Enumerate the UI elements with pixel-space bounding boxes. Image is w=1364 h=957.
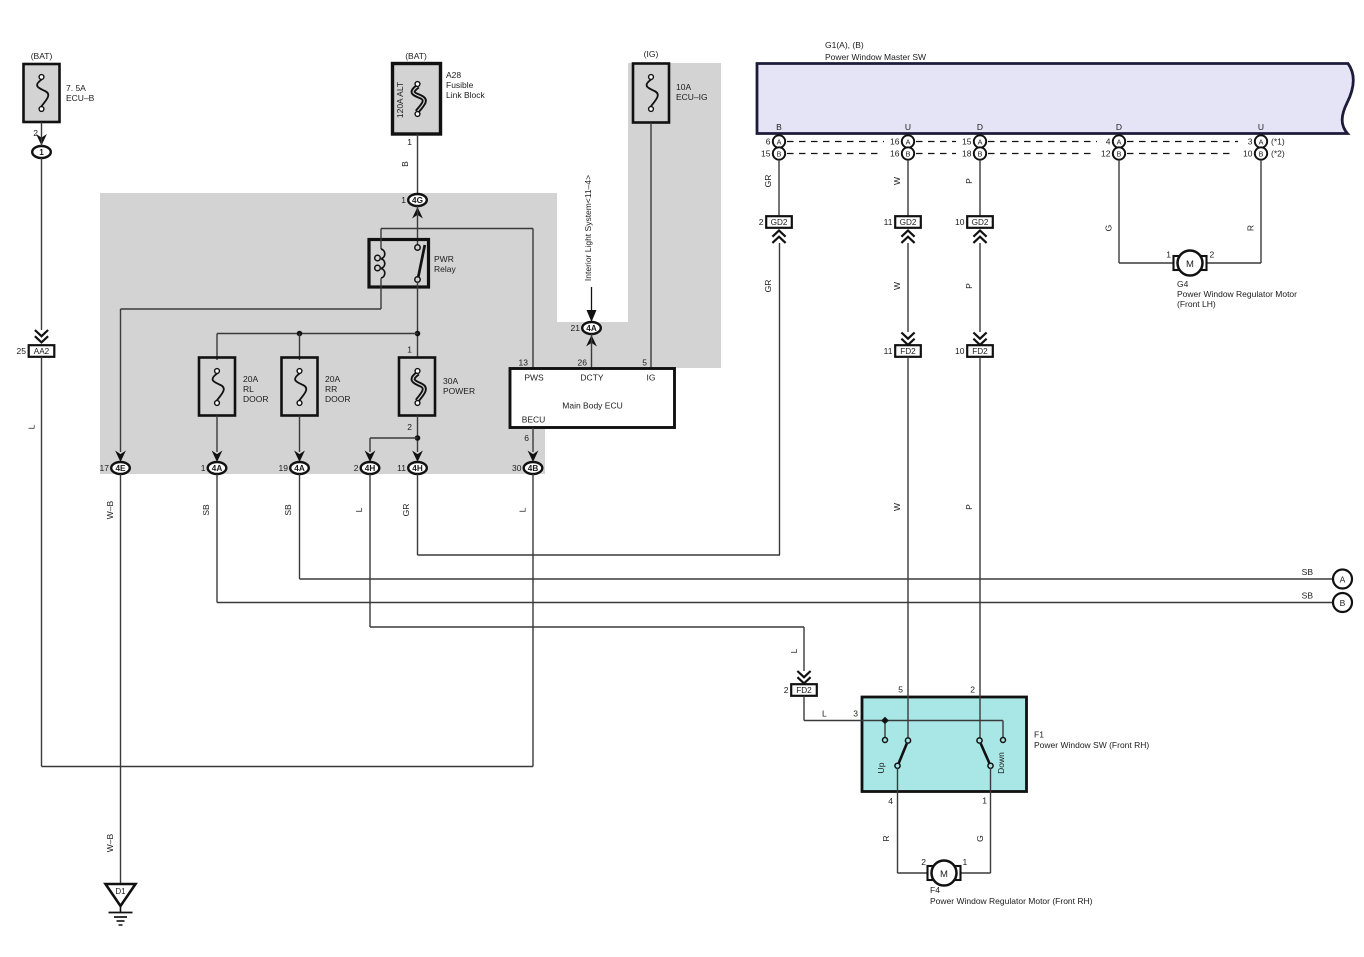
svg-text:(BAT): (BAT): [31, 51, 53, 61]
svg-text:4H: 4H: [412, 464, 423, 473]
svg-text:10A: 10A: [676, 82, 691, 92]
wire branch to 4H-2: [370, 438, 418, 452]
contact stub in F1: [883, 724, 888, 743]
svg-text:(Front LH): (Front LH): [1177, 299, 1216, 309]
wire 4B down to bottom run, label L: [518, 474, 534, 767]
arrow into 4E: [115, 451, 126, 463]
wire master SW pin U to GD2, label W: [892, 160, 908, 216]
pin 5 label: [642, 358, 647, 368]
wire 4H-11 to GD2 column, label GR: [401, 474, 780, 555]
fuse 20A RR DOOR: [282, 358, 351, 416]
pin 3 connector A (*1): [1248, 135, 1285, 147]
fuse 10A ECU-IG: [633, 49, 708, 123]
fusible link 120A ALT (A28): [393, 51, 486, 134]
fuse 30A POWER: [399, 345, 475, 433]
svg-text:B: B: [400, 161, 410, 167]
svg-text:L: L: [518, 507, 528, 512]
svg-text:20A: 20A: [243, 374, 258, 384]
pin 18 connector B (master SW, D column): [962, 147, 986, 159]
svg-text:11: 11: [884, 217, 893, 227]
svg-text:4: 4: [888, 796, 893, 806]
svg-text:L: L: [822, 709, 827, 719]
dashed pin tie lines row B: [787, 153, 1235, 155]
svg-text:W: W: [892, 282, 902, 290]
wire AA2 down to bottom run: [41, 357, 43, 767]
wire master SW pin D to GD2, label P: [964, 160, 980, 216]
svg-text:F4: F4: [930, 885, 940, 895]
switch blade Down: [977, 738, 1006, 774]
svg-text:120A ALT: 120A ALT: [395, 82, 405, 118]
svg-text:GR: GR: [763, 175, 773, 188]
svg-text:P: P: [964, 178, 974, 184]
contact circle right in F1: [1001, 738, 1006, 743]
pin 2 label of F1: [970, 685, 975, 695]
svg-text:U: U: [1258, 122, 1264, 132]
pin 15 connector B (master SW, B column): [761, 147, 785, 159]
wire RR DOOR fuse to 4A-19: [299, 416, 301, 453]
ECU block Main Body ECU: [510, 369, 675, 428]
arrow up into 4G: [412, 207, 423, 219]
wire 4G to PWR relay switch: [417, 206, 419, 245]
pin 1 label of F1: [982, 796, 987, 806]
svg-text:1: 1: [401, 195, 406, 205]
arrow into 4A-1: [212, 451, 223, 463]
svg-text:4H: 4H: [365, 464, 376, 473]
svg-text:G: G: [1104, 225, 1114, 232]
svg-text:B: B: [978, 149, 983, 158]
wire FD2-2 into F1 pin 3, label L: [804, 696, 885, 721]
wire relay coil feed horizontal to PWS: [381, 229, 533, 369]
switch blade Up: [876, 738, 911, 774]
svg-text:DOOR: DOOR: [325, 394, 351, 404]
wire F1 pin 1 to motor F4, label G: [961, 768, 991, 873]
svg-text:(*2): (*2): [1271, 149, 1285, 159]
pin 12 connector B (master SW, D2 column): [1101, 147, 1125, 159]
wire bottom horizontal run to 4B column: [42, 766, 534, 768]
wire 4A-1 to joint B, label SB: [201, 474, 1334, 603]
svg-text:G1(A), (B): G1(A), (B): [825, 40, 864, 50]
power bus horizontal wire: [217, 333, 418, 335]
junction connector GD2 (pin 10): [955, 216, 993, 243]
svg-text:13: 13: [519, 358, 529, 368]
svg-text:4E: 4E: [115, 464, 126, 473]
wire GD2 to FD2, label P: [964, 243, 980, 332]
svg-text:4A: 4A: [212, 464, 223, 473]
svg-text:SB: SB: [283, 504, 293, 516]
svg-text:30: 30: [512, 463, 522, 473]
pin 5 label of F1: [898, 685, 903, 695]
wire master SW pin U2 to motor G4, label R: [1204, 160, 1261, 263]
svg-text:20A: 20A: [325, 374, 340, 384]
svg-text:1: 1: [407, 345, 412, 355]
svg-text:Main Body ECU: Main Body ECU: [562, 401, 622, 411]
relay PWR Relay: [369, 229, 456, 310]
svg-text:P: P: [964, 504, 974, 510]
wire ECU-IG fuse to ECU pin 5: [650, 123, 652, 369]
wire bus to RR DOOR fuse: [299, 334, 301, 361]
wire master SW pin B to GD2, label GR: [763, 160, 779, 216]
svg-text:11: 11: [884, 346, 893, 356]
svg-text:6: 6: [524, 433, 529, 443]
svg-text:17: 17: [100, 463, 110, 473]
svg-text:L: L: [27, 424, 37, 429]
switch F1 Power Window SW (Front RH): [862, 697, 1149, 792]
svg-text:10: 10: [1243, 149, 1253, 159]
pin 6 label: [524, 433, 529, 443]
svg-text:A: A: [978, 137, 983, 146]
svg-text:U: U: [905, 122, 911, 132]
svg-text:2: 2: [1210, 250, 1215, 260]
svg-text:A: A: [906, 137, 911, 146]
svg-text:1: 1: [1166, 250, 1171, 260]
pin 2 of fuse ECU-B: [33, 128, 38, 138]
svg-text:Up: Up: [876, 762, 886, 773]
svg-text:B: B: [1259, 149, 1264, 158]
motor G4 Power Window Regulator Motor Front LH: [1166, 250, 1297, 310]
connector oval 4A (pin 21): [571, 322, 601, 334]
svg-text:1: 1: [982, 796, 987, 806]
svg-text:B: B: [1117, 149, 1122, 158]
svg-text:3: 3: [853, 709, 858, 719]
connector oval 4G: [401, 194, 427, 206]
wire FD2 to power window SW pin 2, label P: [964, 357, 980, 738]
svg-text:11: 11: [397, 463, 406, 473]
svg-text:21: 21: [571, 323, 581, 333]
wire relay switch to power bus: [417, 282, 419, 358]
svg-text:18: 18: [962, 149, 972, 159]
junction dot below 30A POWER: [415, 435, 421, 441]
svg-text:AA2: AA2: [34, 347, 50, 356]
junction connector FD2 (pin 10): [955, 333, 993, 357]
arrow into 4H-2: [365, 451, 376, 463]
wire FD2 to power window SW pin 5, label W: [892, 357, 908, 738]
svg-text:Power Window Master SW: Power Window Master SW: [825, 52, 926, 62]
svg-text:1: 1: [39, 148, 44, 157]
junction diamond in F1: [881, 717, 889, 725]
arrow into 4A-19: [294, 451, 305, 463]
svg-text:2: 2: [921, 857, 926, 867]
svg-text:GR: GR: [763, 280, 773, 293]
svg-text:Down: Down: [996, 752, 1006, 774]
svg-text:SB: SB: [1302, 567, 1314, 577]
svg-text:Power Window SW (Front RH): Power Window SW (Front RH): [1034, 740, 1149, 750]
svg-text:10: 10: [955, 217, 965, 227]
svg-text:L: L: [354, 507, 364, 512]
connector oval 4A (pin 1): [201, 462, 227, 474]
svg-text:5: 5: [898, 685, 903, 695]
svg-text:B: B: [906, 149, 911, 158]
svg-text:W–B: W–B: [105, 500, 115, 519]
pin 4 label of F1: [888, 796, 893, 806]
svg-text:15: 15: [761, 149, 771, 159]
svg-text:5: 5: [642, 358, 647, 368]
wire ECU pin 6 to 4B: [532, 428, 534, 453]
svg-text:ECU–B: ECU–B: [66, 93, 95, 103]
svg-text:2: 2: [759, 217, 764, 227]
junction connector GD2 (pin 11): [884, 216, 921, 243]
svg-text:DOOR: DOOR: [243, 394, 269, 404]
fuse 20A RL DOOR: [199, 358, 269, 416]
svg-text:(*1): (*1): [1271, 137, 1285, 147]
svg-text:W: W: [892, 503, 902, 511]
svg-text:4G: 4G: [412, 196, 423, 205]
svg-text:4: 4: [1106, 137, 1111, 147]
svg-text:Fusible: Fusible: [446, 80, 474, 90]
svg-text:2: 2: [407, 422, 412, 432]
svg-text:M: M: [1186, 259, 1194, 270]
pin 15 connector A (master SW, D column): [962, 135, 986, 147]
wire 4H-2 to FD2, label L: [354, 474, 804, 671]
svg-text:4B: 4B: [528, 464, 539, 473]
svg-text:6: 6: [766, 137, 771, 147]
motor F4 Power Window Regulator Motor Front RH: [921, 857, 1092, 906]
junction dot at relay output: [415, 331, 421, 337]
pin 10 connector B (*2): [1243, 147, 1285, 159]
svg-text:1: 1: [407, 137, 412, 147]
connector oval 1: [32, 146, 51, 158]
svg-text:PWS: PWS: [524, 373, 544, 383]
svg-text:7. 5A: 7. 5A: [66, 83, 86, 93]
svg-text:Power Window Regulator Motor (: Power Window Regulator Motor (Front RH): [930, 896, 1093, 906]
fuse 7.5A ECU-B: [24, 51, 95, 122]
ground D1: [106, 884, 136, 925]
svg-text:Interior Light System<11–4>: Interior Light System<11–4>: [583, 175, 593, 281]
svg-text:Link Block: Link Block: [446, 90, 485, 100]
svg-text:D1: D1: [115, 887, 126, 896]
svg-text:GD2: GD2: [900, 218, 917, 227]
wire 4A-19 to joint A, label SB: [283, 474, 1334, 579]
svg-text:FD2: FD2: [796, 686, 812, 695]
svg-text:10: 10: [955, 346, 965, 356]
svg-text:IG: IG: [647, 373, 656, 383]
svg-text:B: B: [1340, 598, 1346, 608]
connector oval 4H (pin 2): [354, 462, 380, 474]
svg-text:RL: RL: [243, 384, 254, 394]
svg-text:1: 1: [963, 857, 968, 867]
svg-text:ECU–IG: ECU–IG: [676, 92, 708, 102]
junction dot above RR DOOR fuse: [297, 331, 303, 337]
svg-text:A28: A28: [446, 70, 461, 80]
arrow into 4B: [528, 451, 539, 463]
svg-text:16: 16: [890, 149, 900, 159]
wire 30A POWER fuse down: [417, 416, 419, 453]
wire master SW pin D2 to motor G4, label G: [1104, 160, 1177, 263]
svg-text:F1: F1: [1034, 730, 1044, 740]
svg-text:G: G: [975, 835, 985, 842]
arrow into 4H-11: [412, 451, 423, 463]
svg-text:GD2: GD2: [972, 218, 989, 227]
pin 6 connector A (master SW, B column): [766, 135, 785, 147]
pin 1 of fusible link: [407, 137, 412, 147]
svg-text:3: 3: [1248, 137, 1253, 147]
svg-text:L: L: [789, 648, 799, 653]
pin 16 connector A (master SW, U column): [890, 135, 914, 147]
pin 16 connector B (master SW, U column): [890, 147, 914, 159]
svg-text:R: R: [881, 835, 891, 841]
svg-text:P: P: [964, 283, 974, 289]
svg-text:SB: SB: [201, 504, 211, 516]
wire 4A to ECU pin 26: [591, 334, 593, 369]
svg-text:B: B: [777, 149, 782, 158]
junction connector FD2 (pin 2): [784, 671, 817, 696]
svg-text:12: 12: [1101, 149, 1111, 159]
svg-text:30A: 30A: [443, 376, 458, 386]
svg-text:19: 19: [279, 463, 289, 473]
wire relay coil to 4E column: [121, 309, 382, 452]
svg-text:2: 2: [354, 463, 359, 473]
svg-text:A: A: [1340, 575, 1346, 585]
svg-text:D: D: [977, 122, 983, 132]
svg-text:(BAT): (BAT): [405, 51, 427, 61]
arrow into connector 1: [36, 134, 47, 146]
connector oval 4A (pin 19): [279, 462, 309, 474]
svg-text:GR: GR: [401, 504, 411, 517]
arrow up into 4A: [586, 335, 597, 347]
svg-text:DCTY: DCTY: [580, 373, 603, 383]
connector oval 4H (pin 11): [397, 462, 427, 474]
svg-text:FD2: FD2: [972, 347, 988, 356]
Interior Light System reference arrow: [583, 175, 597, 322]
connector oval 4E (pin 17): [100, 462, 130, 474]
wire inside F1 from pin 3 junction: [885, 721, 1003, 738]
svg-text:R: R: [1246, 225, 1256, 231]
gray harness shading region: [100, 63, 721, 474]
pin 26 label: [578, 358, 588, 368]
pin 4 connector A (master SW, D2 column): [1106, 135, 1125, 147]
wire GD2 down to 4H-11 run, label GR: [763, 243, 780, 555]
wire GD2 to FD2, label W: [892, 243, 908, 332]
svg-text:GD2: GD2: [771, 218, 788, 227]
component G1 Power Window Master SW (block): [757, 40, 1353, 134]
svg-text:POWER: POWER: [443, 386, 475, 396]
svg-text:FD2: FD2: [900, 347, 916, 356]
svg-text:25: 25: [17, 346, 27, 356]
svg-text:A: A: [777, 137, 782, 146]
wire fusible link to 4G, label B: [400, 134, 418, 194]
dashed pin tie lines row A: [787, 141, 1238, 143]
svg-text:(IG): (IG): [644, 49, 659, 59]
svg-text:4A: 4A: [586, 324, 597, 333]
wire F1 pin 4 to motor F4, label R: [881, 768, 928, 873]
svg-text:15: 15: [962, 137, 972, 147]
junction connector GD2 (pin 2): [759, 216, 792, 243]
pin 13 label: [519, 358, 529, 368]
svg-text:Power Window Regulator Motor: Power Window Regulator Motor: [1177, 289, 1297, 299]
svg-text:Relay: Relay: [434, 264, 456, 274]
wire bus to RL DOOR fuse: [216, 334, 218, 361]
svg-text:W–B: W–B: [105, 833, 115, 852]
svg-text:A: A: [1117, 137, 1122, 146]
svg-text:M: M: [940, 869, 948, 880]
junction connector AA2: [17, 330, 55, 357]
svg-text:G4: G4: [1177, 279, 1189, 289]
svg-text:B: B: [776, 122, 782, 132]
svg-text:SB: SB: [1302, 591, 1314, 601]
svg-text:A: A: [1259, 137, 1264, 146]
svg-text:D: D: [1116, 122, 1122, 132]
svg-text:PWR: PWR: [434, 254, 454, 264]
joint circle A with SB label: [1302, 567, 1352, 589]
svg-text:4A: 4A: [294, 464, 305, 473]
svg-text:2: 2: [970, 685, 975, 695]
joint circle B with SB label: [1302, 591, 1352, 613]
svg-text:1: 1: [201, 463, 206, 473]
svg-text:W: W: [892, 177, 902, 185]
svg-text:16: 16: [890, 137, 900, 147]
svg-text:BECU: BECU: [522, 415, 546, 425]
wire fuse ECU-B to AA2, label L: [27, 122, 42, 429]
svg-text:RR: RR: [325, 384, 337, 394]
svg-text:2: 2: [784, 685, 789, 695]
svg-text:26: 26: [578, 358, 588, 368]
wire RL DOOR fuse to 4A-1: [216, 416, 218, 453]
junction connector FD2 (pin 11): [884, 333, 921, 357]
connector oval 4B (pin 30): [512, 462, 542, 474]
wire 4E to ground D1, label W-B: [105, 474, 121, 884]
